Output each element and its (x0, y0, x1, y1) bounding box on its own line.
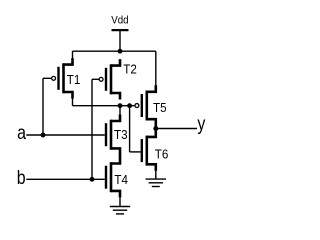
svg-text:a: a (17, 122, 26, 144)
svg-text:y: y (197, 113, 205, 135)
node a junction (41, 133, 46, 138)
transistor T3 (NMOS) (106, 115, 120, 159)
wire T4 source to ground (119, 197, 121, 206)
transistor T5 (PMOS) (135, 85, 156, 128)
wire rail to T5 source (155, 51, 157, 90)
wire input b line (26, 178, 105, 180)
transistor T4 (NMOS) (106, 157, 120, 197)
svg-text:T5: T5 (153, 101, 167, 116)
wire Vdd drop (119, 31, 121, 52)
ground (under T4) (110, 207, 130, 214)
ground (under T6) (146, 179, 166, 186)
node b junction (90, 177, 95, 182)
svg-text:b: b (17, 167, 26, 189)
node Vdd junction (118, 49, 123, 54)
wire NAND output node line (73, 105, 135, 107)
wire T1 drain to node (72, 96, 74, 106)
node node n2 (127, 103, 132, 108)
wire T6 source to ground (155, 170, 157, 179)
svg-text:T1: T1 (67, 72, 81, 87)
wire T3 source riser (119, 106, 121, 118)
wire output line (156, 128, 197, 130)
transistor T1 (PMOS) (52, 58, 73, 98)
svg-text:T3: T3 (114, 127, 128, 142)
svg-text:Vdd: Vdd (111, 15, 128, 26)
node output y node (153, 126, 158, 131)
transistor T6 (NMOS) (142, 129, 156, 171)
wire b to T2 gate stub (92, 78, 99, 80)
wire input a line (26, 134, 105, 136)
wire rail to T1 source (72, 51, 74, 60)
Vdd supply bar (112, 29, 129, 31)
svg-text:T2: T2 (123, 62, 137, 77)
transistor T2 (PMOS) (99, 59, 120, 99)
wire T6 gate wire (130, 151, 141, 153)
wire n2 to T6 gate drop (129, 106, 131, 152)
wire Vdd rail (73, 50, 156, 52)
svg-text:T6: T6 (155, 147, 169, 162)
node node n1 (118, 103, 123, 108)
wire a to T1 gate stub (43, 77, 52, 79)
svg-text:T4: T4 (114, 172, 128, 187)
wire b to T2 gate riser (91, 79, 93, 179)
wire a to T1 gate riser (42, 78, 44, 135)
